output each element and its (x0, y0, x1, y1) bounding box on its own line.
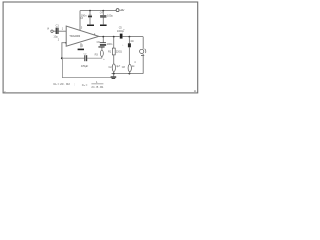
wire: input to C1 (53, 30, 55, 32)
capacitor C6 (100n to ground) (97, 37, 113, 46)
svg-text:Rₓ = 20 · R2: Rₓ = 20 · R2 (54, 82, 71, 86)
node: rail junction B (102, 10, 104, 12)
svg-text:470µF: 470µF (81, 64, 89, 68)
resistor R3 (95, 48, 106, 62)
capacitor C8 (122, 47, 135, 73)
terminal +12V (116, 9, 119, 12)
svg-text:4Ω: 4Ω (130, 40, 133, 43)
svg-text:4µ7: 4µ7 (116, 65, 121, 68)
node: feedback junction (61, 57, 63, 59)
op-amp U1 TDA2003 (66, 26, 99, 46)
wire: bottom return route (62, 58, 110, 77)
capacitor C3 (100n supply decoupling) (80, 11, 92, 25)
svg-text:;: ; (74, 82, 75, 86)
svg-text:100n: 100n (107, 42, 113, 46)
wire: supply down to pin 5 (79, 11, 81, 31)
loudspeaker LS1 (140, 49, 146, 56)
node: rail junction D (129, 73, 131, 75)
wire: pin 3 ground stub (80, 43, 82, 47)
wire: output line (99, 36, 120, 38)
terminal input (51, 30, 53, 32)
node: output junction 3 (129, 36, 131, 38)
capacitor C5 (1000u output) (117, 26, 125, 38)
wire: loudspeaker to rail (142, 54, 144, 74)
node: output junction 1 (102, 36, 104, 38)
svg-text:+12V: +12V (120, 8, 125, 12)
capacitor C7 (122, 37, 134, 48)
svg-text:220Ω: 220Ω (116, 50, 122, 53)
svg-text:TDA2003: TDA2003 (69, 34, 80, 38)
node: rail junction A (89, 10, 91, 12)
wire: +12V supply rail (80, 10, 116, 12)
ground (main) (111, 74, 117, 79)
svg-text:100n: 100n (81, 13, 87, 17)
ground (C3) (87, 25, 94, 27)
capacitor C2 (470uF series) (81, 53, 89, 68)
ground (C6) (98, 46, 104, 47)
wire: pin 2 to feedback column (65, 42, 66, 43)
capacitor C1 (input 10u) (53, 24, 59, 38)
ground (C4) (100, 25, 107, 27)
frame (unlabeled decorative border) (3, 2, 198, 93)
svg-text:100µ: 100µ (107, 13, 113, 17)
wire: output down to loudspeaker (142, 37, 144, 49)
node: rail junction C (113, 73, 115, 75)
wire: bottom rail (112, 73, 144, 75)
wire: C1 to pin 1 (59, 30, 67, 32)
svg-text:2π · B · R1: 2π · B · R1 (91, 85, 104, 89)
resistor R1 (220 ohm) (108, 37, 122, 55)
capacitor Cx (109, 55, 121, 74)
ground (pin 3) (78, 49, 84, 51)
svg-text:Cₓ =: Cₓ = (82, 83, 88, 87)
capacitor C4 (100u supply decoupling) (100, 11, 114, 25)
node: output junction 2 (113, 36, 115, 38)
wire: feedback horizontal (62, 57, 84, 59)
